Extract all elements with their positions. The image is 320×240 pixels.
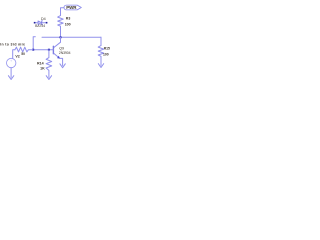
net flag PWR bbox=[64, 5, 81, 10]
node: junction base/R14 bbox=[48, 49, 50, 51]
wire: base wire bbox=[33, 49, 53, 51]
svg-text:V2: V2 bbox=[15, 55, 19, 59]
svg-text:100: 100 bbox=[103, 53, 109, 57]
resistor R15 bbox=[98, 46, 104, 66]
resistor R source 50 (horizontal) bbox=[15, 47, 33, 52]
svg-text:100: 100 bbox=[65, 23, 71, 27]
ground below V2 bbox=[8, 76, 13, 80]
resistor R14 bbox=[46, 50, 52, 78]
svg-text:Q9: Q9 bbox=[59, 46, 64, 50]
svg-text:PWR: PWR bbox=[66, 5, 77, 10]
resistor R3 bbox=[58, 16, 64, 38]
transistor Q9 base bar bbox=[52, 46, 54, 53]
node: junction bus/collector bbox=[60, 36, 62, 38]
svg-text:R14: R14 bbox=[37, 61, 44, 65]
wire: source to input resistor bbox=[13, 50, 15, 59]
svg-text:2N3904: 2N3904 bbox=[59, 51, 71, 55]
transistor Q9 collector lead bbox=[54, 42, 60, 47]
wire: emitter to ground bbox=[60, 58, 63, 65]
wire: left corner stub at x=33 bbox=[33, 37, 35, 50]
svg-text:1K: 1K bbox=[40, 67, 45, 71]
wire: main horizontal bus y=37 bbox=[42, 36, 101, 38]
svg-text:R3: R3 bbox=[66, 16, 71, 20]
voltage source V2 bbox=[7, 58, 16, 67]
wire: collector vertical bbox=[60, 37, 62, 42]
ground below R14 bbox=[46, 76, 51, 80]
ground below emitter bbox=[60, 64, 65, 68]
emitter arrowhead bbox=[57, 56, 60, 59]
svg-text:R15: R15 bbox=[104, 46, 110, 50]
svg-text:In to 3rd mix: In to 3rd mix bbox=[0, 43, 25, 47]
transistor Q9 emitter lead bbox=[54, 54, 60, 59]
svg-text:BAT54: BAT54 bbox=[35, 24, 45, 28]
node: junction base/stub bbox=[32, 49, 34, 51]
ground below R15 bbox=[98, 64, 103, 68]
wire: PWR flag to R3 top corner bbox=[61, 8, 66, 16]
wire: R15 drop corner bbox=[100, 37, 102, 45]
V2 plus mark bbox=[11, 60, 12, 61]
svg-text:D4: D4 bbox=[41, 17, 46, 21]
svg-text:50: 50 bbox=[21, 52, 25, 56]
diode D4 bbox=[34, 21, 48, 25]
wire: V2 to ground bbox=[10, 68, 12, 78]
